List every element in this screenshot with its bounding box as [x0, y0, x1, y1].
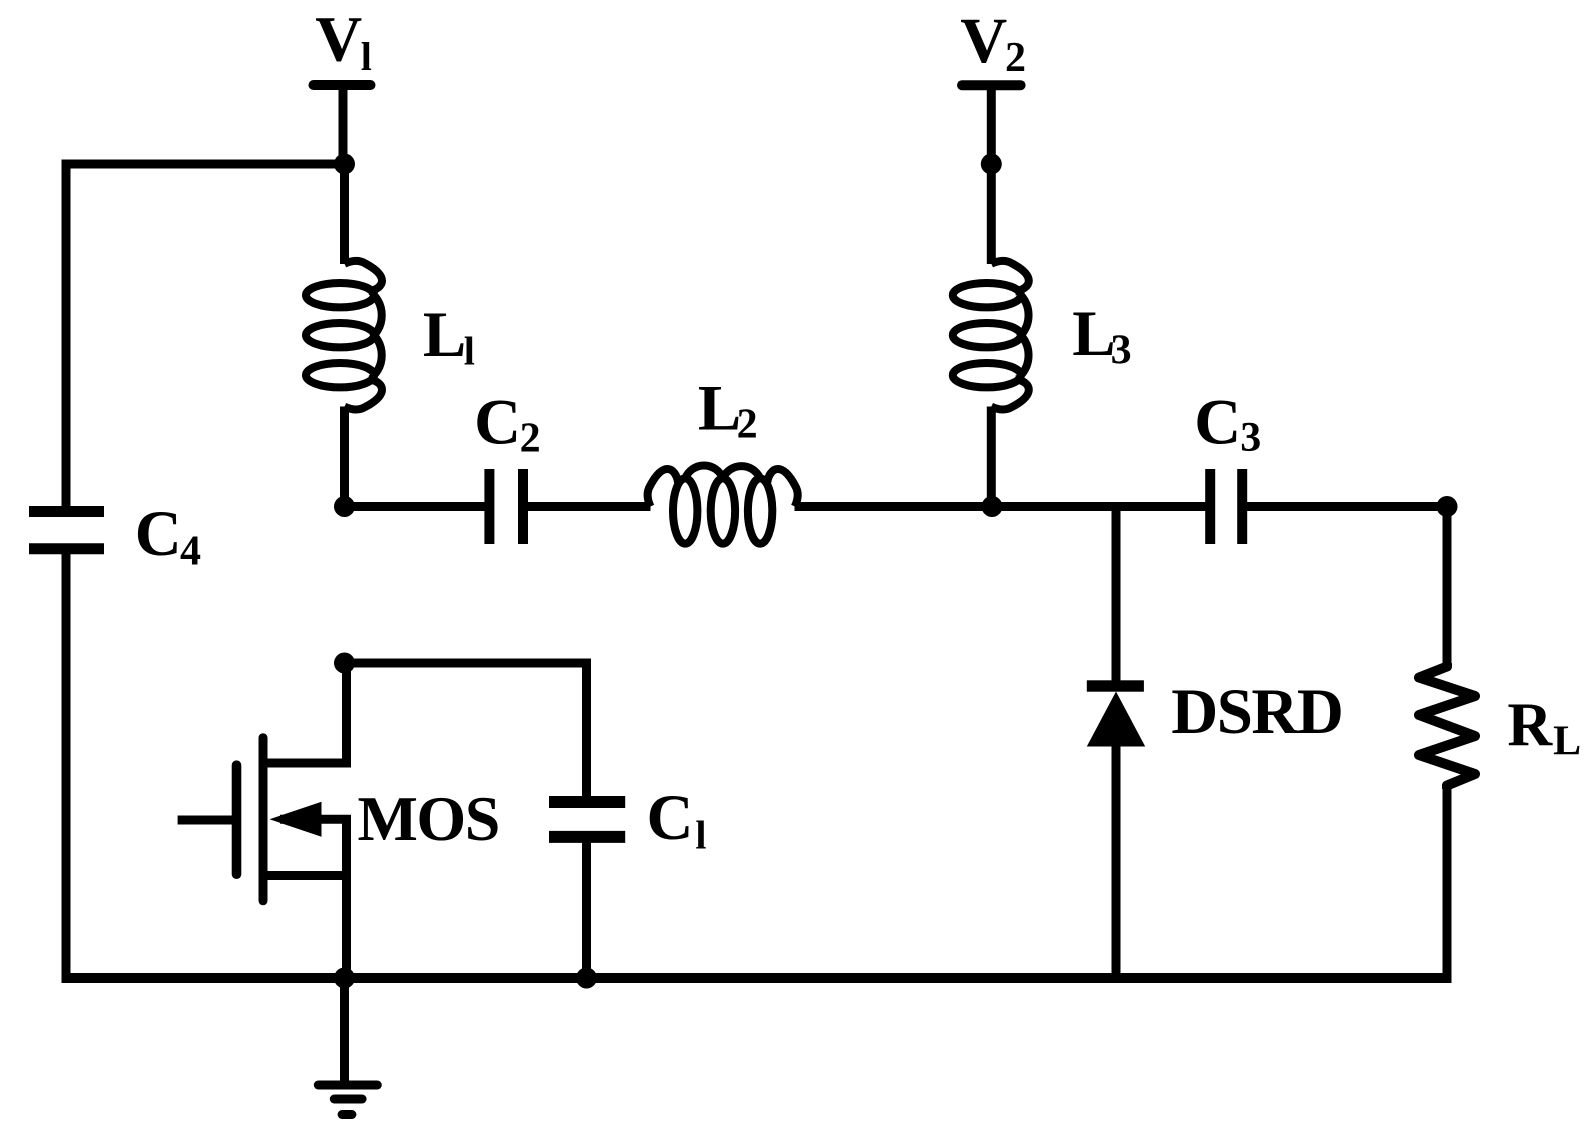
svg-text:C: C — [474, 387, 521, 459]
wire node B to C2 — [345, 502, 486, 511]
node V1 rail junction — [334, 154, 355, 175]
capacitor C2 — [489, 469, 523, 544]
wire left vertical upper — [62, 160, 71, 507]
wire DSRD top stem — [1112, 507, 1121, 687]
wire RL bottom stem — [1443, 785, 1452, 983]
node V2 rail junction — [981, 154, 1002, 175]
transistor MOS channel bar — [259, 738, 268, 901]
label DSRD — [1171, 676, 1342, 748]
node source-ground junction — [334, 968, 355, 989]
wire C2 to L2 — [523, 502, 651, 511]
diode DSRD anode triangle — [1087, 692, 1145, 747]
svg-text:DSRD: DSRD — [1171, 676, 1342, 748]
wire MOS source vertical — [342, 819, 351, 978]
node C drain-C1 junction — [334, 653, 355, 674]
MOS gate lead — [178, 816, 237, 825]
wire C3 to node D — [1242, 502, 1447, 511]
MOS drain lead — [263, 759, 351, 768]
wire DSRD bottom stem — [1112, 744, 1121, 978]
label V2 — [960, 5, 1026, 81]
node C1 bottom junction — [576, 968, 597, 989]
node B L1-C2 junction — [334, 496, 355, 517]
svg-text:C: C — [647, 782, 694, 854]
label C2 — [474, 387, 540, 462]
svg-text:L: L — [1553, 719, 1581, 765]
label L2 — [698, 372, 758, 447]
svg-text:l: l — [361, 34, 372, 79]
svg-text:l: l — [695, 813, 706, 858]
label C4 — [135, 498, 201, 574]
label MOS — [358, 783, 499, 854]
wire L3 bottom stem — [987, 407, 996, 507]
svg-text:L: L — [1072, 298, 1115, 370]
wire L2 to C3 — [795, 502, 1206, 511]
MOS body lead — [280, 815, 351, 824]
label L1 — [423, 299, 475, 373]
wire L1 bottom stem — [340, 407, 349, 507]
label C1 — [647, 782, 707, 857]
label L3 — [1072, 298, 1131, 374]
svg-text:R: R — [1507, 691, 1553, 759]
supply terminal V1 — [314, 80, 371, 90]
wire C1 top vertical — [582, 659, 591, 797]
svg-text:MOS: MOS — [358, 783, 499, 854]
capacitor C4 — [29, 512, 104, 549]
MOS source lead — [263, 871, 351, 880]
wire L1 top stem — [340, 164, 349, 264]
svg-text:l: l — [464, 328, 475, 373]
inductor L2 — [648, 465, 798, 543]
wire top-left horizontal — [62, 160, 345, 169]
svg-text:2: 2 — [1005, 35, 1026, 81]
wire node C to C1 horizontal — [345, 659, 587, 668]
capacitor C3 — [1210, 469, 1242, 544]
svg-text:2: 2 — [737, 401, 758, 447]
svg-text:2: 2 — [520, 415, 541, 461]
transistor MOS gate bar — [232, 765, 242, 874]
label V1 — [315, 4, 372, 79]
resistor RL — [1419, 663, 1475, 789]
ground — [318, 1085, 377, 1115]
MOS body arrow — [270, 802, 322, 837]
supply terminal V2 — [962, 80, 1021, 90]
wire V1 stem — [339, 85, 348, 168]
wire bottom rail — [62, 973, 1452, 983]
wire C1 bottom vertical — [582, 842, 591, 978]
label RL — [1507, 691, 1581, 764]
wire MOS drain vertical — [342, 663, 351, 763]
node L3 bottom junction — [982, 496, 1003, 517]
node D C3-RL junction — [1437, 496, 1458, 517]
svg-text:V: V — [315, 4, 362, 76]
wire ground stem — [340, 978, 349, 1081]
svg-text:L: L — [423, 299, 466, 371]
svg-text:C: C — [1194, 386, 1241, 458]
svg-text:V: V — [960, 5, 1007, 77]
svg-text:L: L — [698, 372, 741, 444]
svg-text:4: 4 — [180, 528, 201, 574]
inductor L1 — [306, 261, 382, 410]
wire L3 top stem — [987, 164, 996, 264]
wire RL top stem — [1443, 507, 1452, 668]
label C3 — [1194, 386, 1261, 461]
inductor L3 — [953, 261, 1029, 410]
wire V2 stem — [987, 85, 996, 168]
svg-text:3: 3 — [1111, 328, 1132, 374]
diode DSRD cathode bar — [1087, 680, 1144, 691]
wire left vertical lower — [62, 554, 71, 983]
svg-text:3: 3 — [1240, 415, 1261, 461]
svg-text:C: C — [135, 498, 182, 570]
capacitor C1 — [549, 802, 625, 837]
